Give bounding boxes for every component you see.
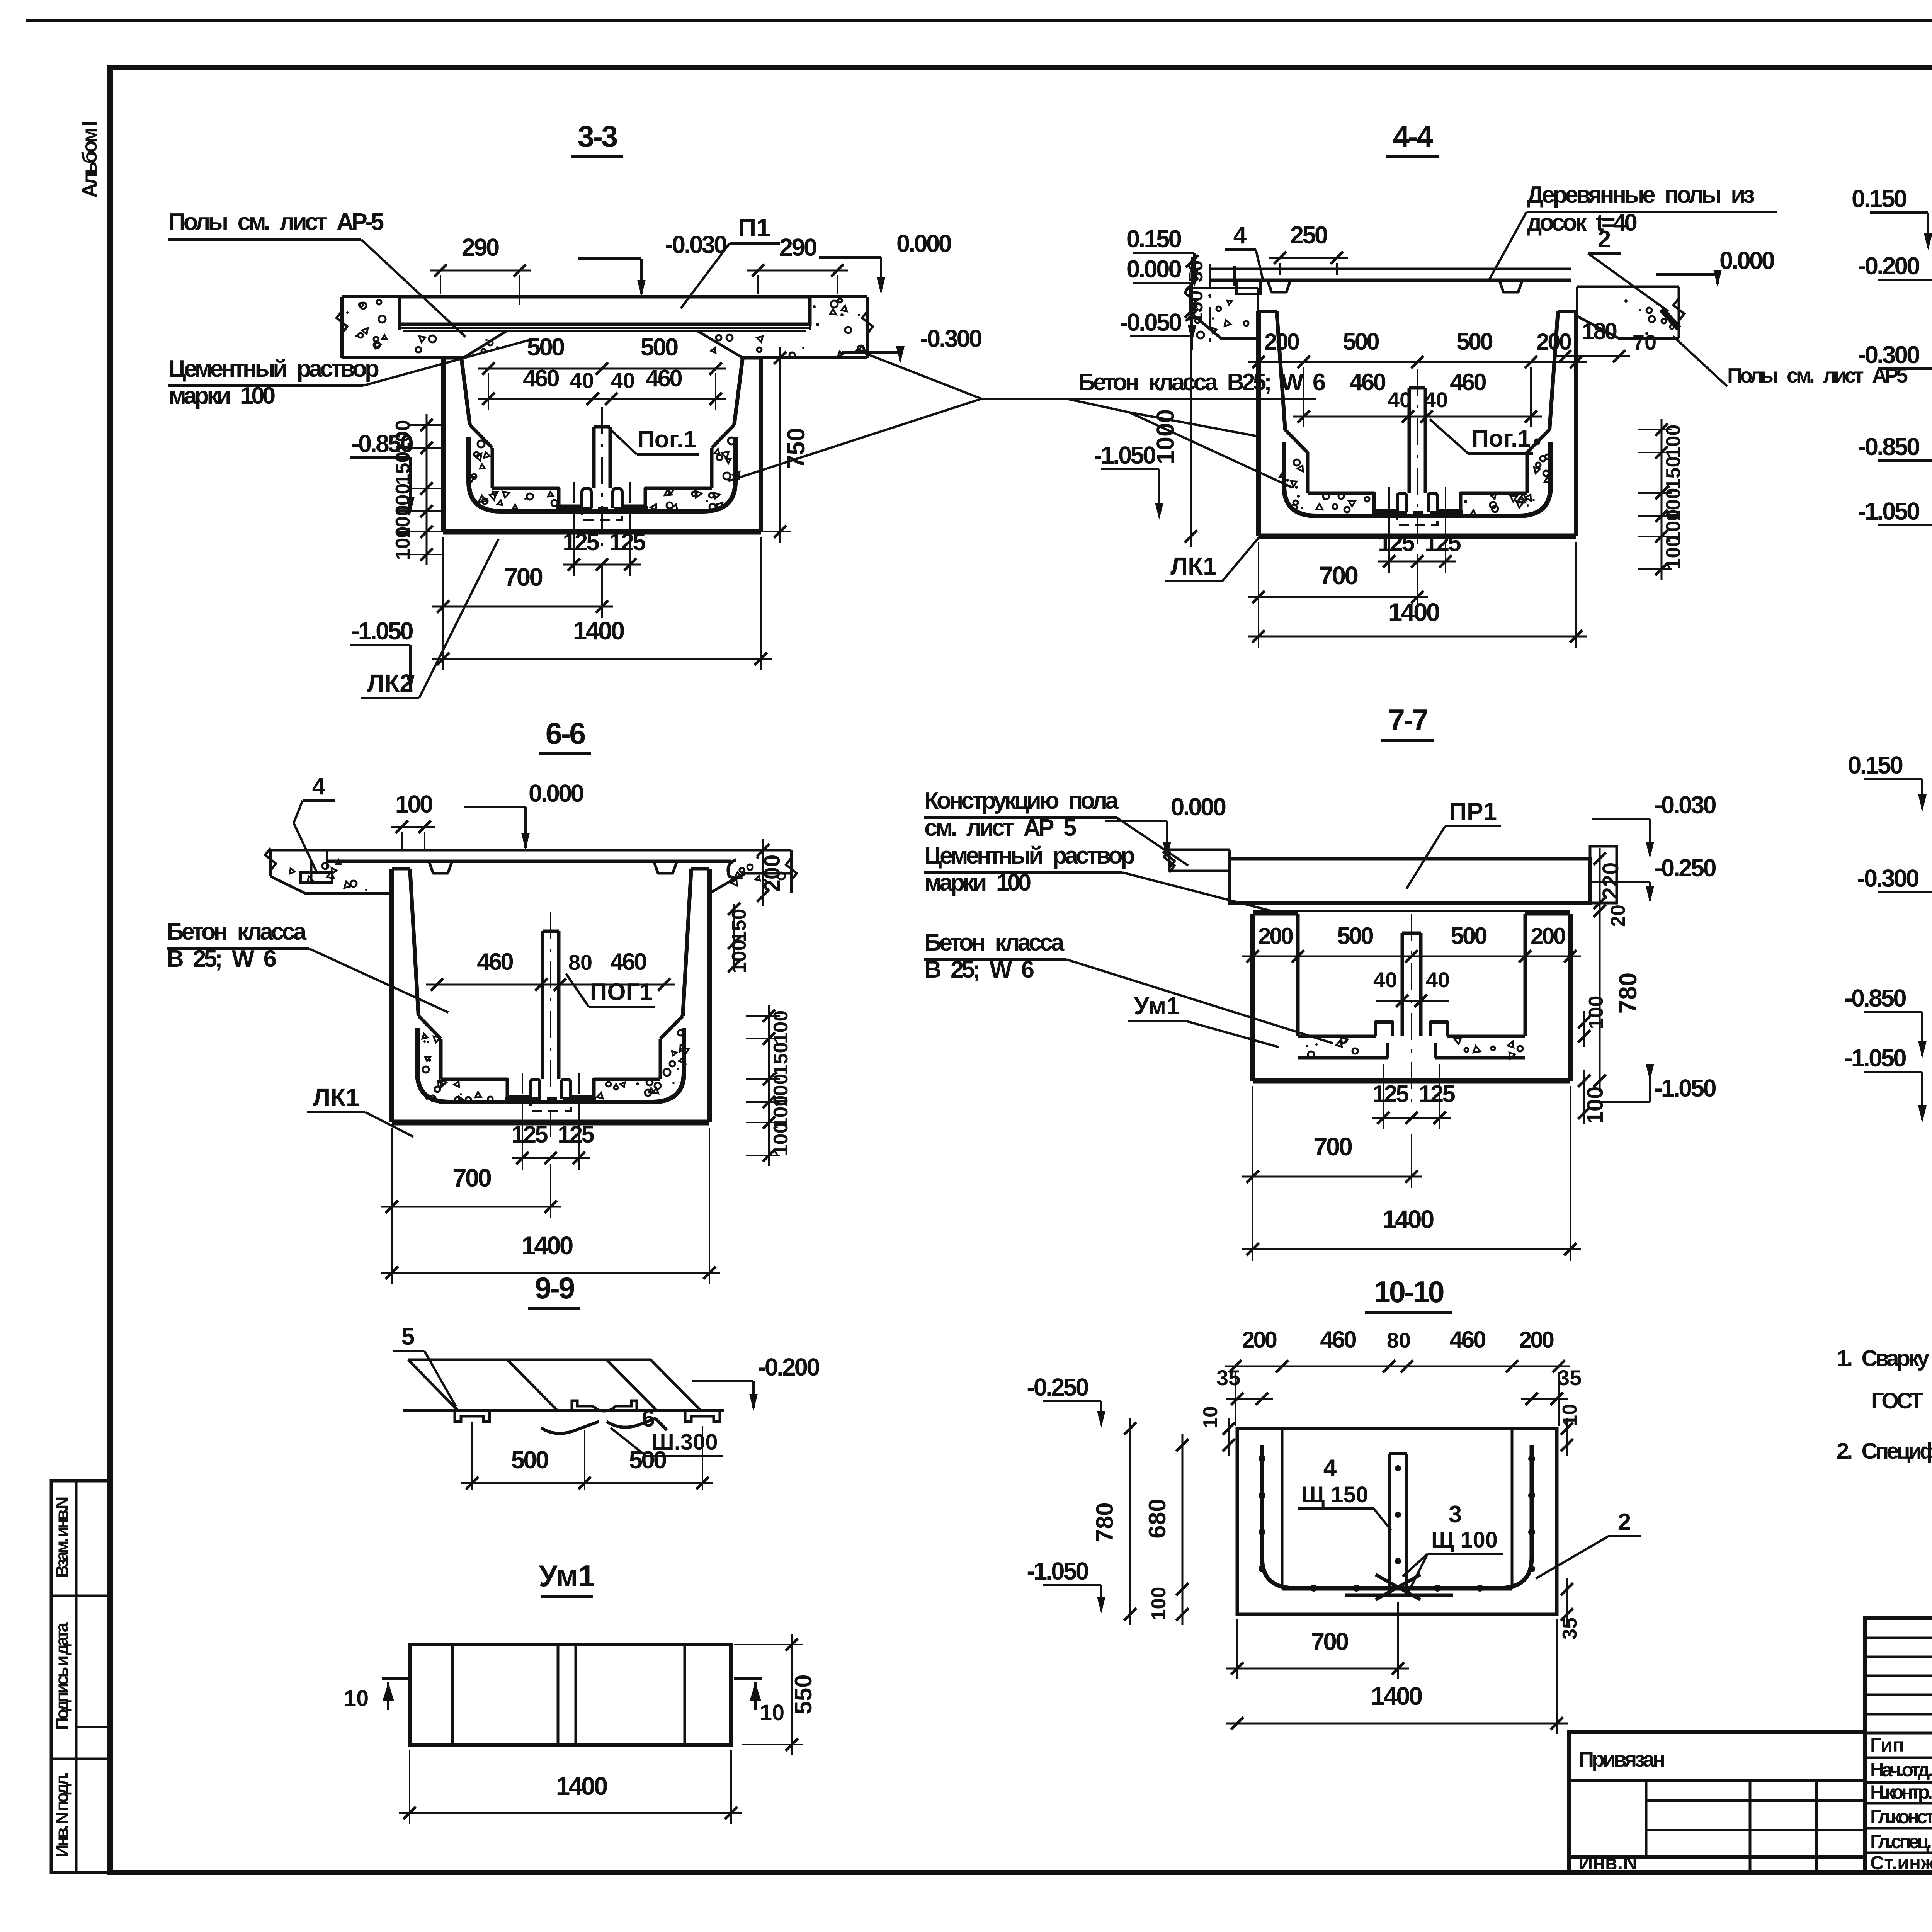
svg-text:4-4: 4-4 [1393, 119, 1433, 153]
svg-text:-1.050: -1.050 [1654, 1074, 1716, 1102]
svg-text:4: 4 [1233, 222, 1247, 249]
svg-text:5: 5 [401, 1323, 415, 1350]
section 6-6 wooden cover boards [327, 849, 731, 852]
svg-text:100: 100 [770, 1010, 792, 1044]
svg-text:40: 40 [611, 368, 635, 393]
svg-text:Конструкцию пола: Конструкцию пола [924, 787, 1119, 814]
svg-text:180: 180 [1582, 318, 1617, 344]
svg-text:700: 700 [1319, 561, 1357, 590]
section 7-7 floor slab PR1 [1230, 859, 1590, 903]
Um1 slab rectangle [410, 1645, 731, 1745]
svg-text:200: 200 [1536, 329, 1571, 355]
svg-text:40: 40 [1426, 968, 1450, 992]
section 7-7 dims 200 500 500 200 [1242, 956, 1581, 957]
svg-text:2. Спецификацию и расход м: 2. Спецификацию и расход материалов на м… [1837, 1439, 1932, 1464]
section 3-3 concrete lining hatch [469, 477, 474, 481]
svg-text:125: 125 [511, 1121, 548, 1148]
svg-text:290: 290 [462, 233, 499, 261]
svg-text:-1.050: -1.050 [1858, 497, 1919, 525]
svg-text:1400: 1400 [573, 616, 624, 645]
section 4-4 divider column POG1 [1408, 388, 1411, 493]
section 10-10 box outline [1237, 1429, 1557, 1614]
svg-text:125: 125 [563, 529, 599, 556]
svg-text:125: 125 [1418, 1081, 1455, 1107]
svg-text:125: 125 [609, 529, 645, 556]
svg-text:1. Сварку производить по Г: 1. Сварку производить по ГОСТ 5264-80 эл… [1837, 1346, 1932, 1371]
svg-text:200: 200 [1531, 923, 1565, 949]
svg-text:500: 500 [511, 1446, 548, 1474]
svg-text:100: 100 [770, 1122, 792, 1156]
svg-text:1400: 1400 [1371, 1682, 1422, 1710]
svg-text:150: 150 [770, 1042, 792, 1076]
svg-text:200: 200 [1264, 329, 1299, 355]
svg-text:460: 460 [646, 365, 682, 392]
section 4-4 dim 250 [1269, 257, 1348, 259]
svg-text:-1.050: -1.050 [1027, 1557, 1088, 1585]
svg-text:Взам. инв.N: Взам. инв.N [52, 1497, 72, 1578]
section 7-7 column [1401, 933, 1404, 1036]
section 4-4 channel trough outline [1256, 311, 1261, 536]
svg-text:100: 100 [1662, 425, 1685, 458]
svg-text:200: 200 [1242, 1327, 1277, 1353]
svg-text:700: 700 [452, 1163, 491, 1192]
svg-text:10: 10 [344, 1686, 369, 1711]
title block main table [1865, 1618, 1932, 1872]
section 7-7 slab right block [1590, 846, 1617, 903]
svg-text:Бетон класса: Бетон класса [167, 918, 307, 945]
section 7-7 right dims [1599, 848, 1601, 914]
svg-text:0.150: 0.150 [1852, 185, 1906, 213]
svg-text:200: 200 [760, 855, 785, 892]
svg-text:Инв.N: Инв.N [1578, 1852, 1638, 1874]
section 6-6 dim 100 top [391, 826, 435, 828]
svg-text:100: 100 [1583, 1087, 1608, 1124]
svg-text:-1.050: -1.050 [1094, 441, 1155, 469]
svg-text:0.000: 0.000 [1171, 793, 1226, 821]
svg-text:ПР1: ПР1 [1449, 798, 1497, 825]
section 6-6 left concrete bed [270, 849, 327, 852]
section 4-4 marker 2 wedge [1662, 309, 1679, 328]
svg-text:досок t=40: досок t=40 [1527, 209, 1636, 236]
svg-text:200: 200 [1258, 923, 1293, 949]
section 3-3 dim 290 left [430, 270, 531, 272]
section 10-10 U rebar [1262, 1445, 1532, 1588]
section 6-6 concrete lining hatch [423, 1040, 426, 1043]
svg-text:125: 125 [1424, 530, 1461, 556]
svg-text:-0.300: -0.300 [920, 325, 981, 352]
svg-text:500: 500 [1337, 923, 1373, 949]
svg-text:-0.200: -0.200 [1858, 252, 1919, 280]
svg-text:Ум1: Ум1 [1134, 992, 1180, 1020]
section 7-7 floor hatch strip [1298, 1035, 1376, 1038]
section 3-3 left concrete block [342, 295, 400, 298]
svg-text:125: 125 [558, 1121, 594, 1148]
svg-text:100: 100 [1585, 996, 1607, 1029]
section 10-10 inner lines [1281, 1429, 1284, 1589]
svg-text:ЛК2: ЛК2 [367, 669, 413, 697]
svg-text:460: 460 [610, 949, 646, 975]
svg-text:6-6: 6-6 [546, 716, 585, 750]
svg-text:550: 550 [790, 1674, 817, 1714]
svg-text:700: 700 [1311, 1628, 1348, 1655]
svg-text:-0.850: -0.850 [1858, 433, 1919, 461]
svg-text:0.000: 0.000 [896, 230, 951, 257]
svg-text:Альбом I: Альбом I [78, 122, 101, 198]
svg-text:-0.250: -0.250 [1654, 854, 1716, 882]
svg-text:3: 3 [1449, 1501, 1462, 1528]
svg-text:80: 80 [1387, 1328, 1411, 1352]
section 4-4 right dimension chain 100 150 100 100 [1661, 419, 1663, 580]
section 7-7 mortar line [1253, 910, 1570, 912]
svg-text:20: 20 [1607, 905, 1629, 927]
svg-text:ПОГ1: ПОГ1 [590, 979, 653, 1005]
svg-text:-1.050: -1.050 [1844, 1044, 1906, 1072]
svg-text:-0.050: -0.050 [1120, 308, 1181, 336]
svg-text:500: 500 [1451, 923, 1486, 949]
section 3-3 right concrete block [810, 295, 867, 298]
svg-text:2: 2 [1598, 226, 1611, 253]
svg-text:40: 40 [1424, 388, 1448, 412]
svg-text:10: 10 [1559, 1404, 1581, 1426]
svg-text:250: 250 [1290, 221, 1327, 249]
section 3-3 floor slab P1 [400, 297, 810, 324]
svg-text:0.150: 0.150 [1848, 751, 1903, 779]
svg-text:700: 700 [1313, 1132, 1352, 1161]
section 6-6 divider column POG1 [541, 931, 544, 1079]
svg-text:35: 35 [1558, 1366, 1582, 1390]
svg-text:-0.030: -0.030 [665, 231, 726, 259]
outer trim border top [26, 19, 1932, 22]
section 6-6 right dimension chain 100 150 100 100 [768, 1005, 770, 1166]
svg-text:500: 500 [641, 333, 678, 361]
section 6-6 channel trough outline [389, 869, 394, 1122]
svg-text:-0.850: -0.850 [1844, 984, 1906, 1012]
svg-text:1000: 1000 [1151, 409, 1179, 464]
svg-text:200: 200 [1519, 1327, 1554, 1353]
svg-text:100: 100 [395, 790, 432, 818]
svg-text:100: 100 [1662, 536, 1685, 570]
svg-text:100: 100 [392, 420, 414, 454]
svg-text:ЛК1: ЛК1 [1170, 552, 1217, 580]
svg-text:150: 150 [392, 452, 414, 485]
section 10-10 dims 780 680 [1129, 1418, 1131, 1625]
left stamp column [51, 1481, 110, 1872]
section 10-10 center rebar [1388, 1454, 1391, 1593]
svg-text:Гл.конст.: Гл.конст. [1870, 1806, 1932, 1828]
svg-text:Пог.1: Пог.1 [637, 426, 697, 453]
svg-text:Щ 100: Щ 100 [1431, 1527, 1498, 1553]
svg-text:Гл.спец.: Гл.спец. [1870, 1831, 1931, 1852]
section 3-3 dim 500 500 [478, 368, 726, 370]
section 4-4 left concrete bed [1190, 287, 1258, 289]
svg-text:460: 460 [1320, 1327, 1356, 1353]
section 3-3 channel trough outline [441, 358, 446, 532]
svg-text:0.000: 0.000 [529, 779, 583, 807]
svg-text:2: 2 [1618, 1509, 1631, 1536]
svg-text:35: 35 [1216, 1366, 1240, 1390]
section 7-7 slab left block [1169, 849, 1230, 851]
svg-text:Подпись и дата: Подпись и дата [52, 1622, 72, 1730]
section 6-6 right dims 200 150 100 [762, 839, 764, 906]
svg-text:Н.контр.: Н.контр. [1870, 1781, 1932, 1803]
svg-text:Цементный раствор: Цементный раствор [168, 355, 379, 382]
svg-text:Бетон класса: Бетон класса [924, 929, 1065, 956]
svg-text:Щ 150: Щ 150 [1302, 1482, 1368, 1507]
svg-text:4: 4 [1323, 1455, 1337, 1481]
svg-text:125: 125 [1378, 530, 1414, 556]
svg-text:Привязан: Привязан [1578, 1747, 1664, 1771]
section 4-4 left end detail [1233, 266, 1236, 286]
svg-text:ГОСТ 9467-75,: ГОСТ 9467-75, [1871, 1388, 1932, 1413]
svg-text:460: 460 [523, 365, 559, 392]
svg-text:Полы см. лист АР-5: Полы см. лист АР-5 [168, 209, 384, 235]
svg-text:Ум1: Ум1 [539, 1559, 595, 1593]
svg-text:Нач.отд.: Нач.отд. [1870, 1759, 1932, 1781]
svg-text:40: 40 [1388, 388, 1412, 412]
svg-text:10-10: 10-10 [1374, 1275, 1444, 1309]
svg-text:500: 500 [1343, 328, 1379, 355]
svg-text:150: 150 [1662, 456, 1685, 490]
svg-text:100: 100 [1148, 1587, 1170, 1621]
svg-text:Бетон класса В25; W 6: Бетон класса В25; W 6 [1078, 369, 1325, 396]
svg-text:460: 460 [1450, 369, 1486, 396]
svg-text:40: 40 [570, 368, 594, 393]
svg-text:4: 4 [312, 773, 326, 800]
svg-text:700: 700 [504, 563, 542, 591]
section 3-3 dim 460 40 40 460 [478, 398, 726, 400]
svg-text:460: 460 [477, 949, 513, 975]
svg-text:0.000: 0.000 [1719, 247, 1774, 274]
svg-text:780: 780 [1614, 973, 1642, 1014]
svg-text:780: 780 [1092, 1502, 1118, 1542]
svg-text:500: 500 [527, 333, 564, 361]
svg-text:80: 80 [568, 950, 592, 975]
svg-text:Инв. N подл.: Инв. N подл. [52, 1773, 72, 1857]
small table Privyazan [1569, 1732, 1865, 1872]
svg-text:1400: 1400 [556, 1772, 607, 1800]
svg-text:460: 460 [1449, 1327, 1485, 1353]
svg-text:40: 40 [1373, 968, 1397, 992]
svg-text:7-7: 7-7 [1388, 703, 1427, 737]
section 4-4 dims 200 500 500 200 [1248, 361, 1587, 363]
section 3-3 left dim chain [426, 414, 428, 565]
section 6-6 trough bottom [417, 1028, 684, 1102]
svg-text:500: 500 [629, 1446, 666, 1474]
svg-text:-0.300: -0.300 [1858, 341, 1919, 369]
svg-text:-0.300: -0.300 [1857, 864, 1918, 892]
svg-text:0.000: 0.000 [1126, 255, 1181, 283]
section 4-4 concrete lining hatch [1282, 457, 1285, 460]
svg-text:Пог.1: Пог.1 [1471, 425, 1531, 452]
svg-text:500: 500 [1456, 328, 1492, 355]
svg-text:0.150: 0.150 [1126, 225, 1181, 253]
svg-text:П1: П1 [738, 213, 770, 242]
svg-text:-0.030: -0.030 [1654, 791, 1716, 819]
svg-text:-0.200: -0.200 [758, 1353, 819, 1381]
svg-text:1400: 1400 [1383, 1205, 1434, 1233]
svg-text:100: 100 [392, 527, 414, 560]
svg-text:10: 10 [1199, 1406, 1222, 1429]
section 3-3 dim 290 right [747, 270, 848, 272]
section 4-4 right concrete bed [1577, 286, 1679, 288]
svg-text:Гип: Гип [1870, 1734, 1904, 1756]
section 4-4 wooden cover boards [1209, 268, 1571, 270]
svg-text:6: 6 [642, 1405, 655, 1432]
svg-text:Деревянные полы из: Деревянные полы из [1527, 182, 1754, 208]
svg-text:460: 460 [1349, 369, 1385, 396]
section 3-3 divider column POG1 [592, 427, 596, 488]
svg-text:10: 10 [760, 1700, 785, 1725]
section 7-7 walls [1250, 914, 1255, 1081]
svg-text:1400: 1400 [522, 1231, 573, 1260]
section 4-4 dim 1000 [1190, 301, 1192, 547]
svg-text:Цементный раствор: Цементный раствор [924, 842, 1134, 869]
svg-text:-0.250: -0.250 [1027, 1373, 1088, 1401]
section 6-6 right concrete bed [731, 849, 791, 852]
svg-text:Ст.инж.: Ст.инж. [1870, 1852, 1932, 1874]
section 3-3 trough bottom [469, 437, 735, 511]
svg-text:1400: 1400 [1388, 598, 1439, 626]
svg-text:-1.050: -1.050 [351, 617, 413, 645]
Um1 dim 550 [791, 1634, 793, 1755]
svg-text:3-3: 3-3 [578, 119, 617, 153]
section 9-9 cover plan [408, 1359, 651, 1361]
svg-text:ЛК1: ЛК1 [313, 1083, 359, 1111]
svg-text:125: 125 [1372, 1081, 1408, 1107]
section 9-9 brackets [455, 1411, 490, 1422]
svg-text:680: 680 [1144, 1498, 1171, 1538]
section 3-3 right dim 750 [779, 347, 781, 543]
section 4-4 trough bottom [1284, 442, 1551, 516]
svg-text:70: 70 [1633, 330, 1656, 354]
svg-text:290: 290 [779, 233, 816, 261]
svg-text:9-9: 9-9 [535, 1271, 574, 1305]
